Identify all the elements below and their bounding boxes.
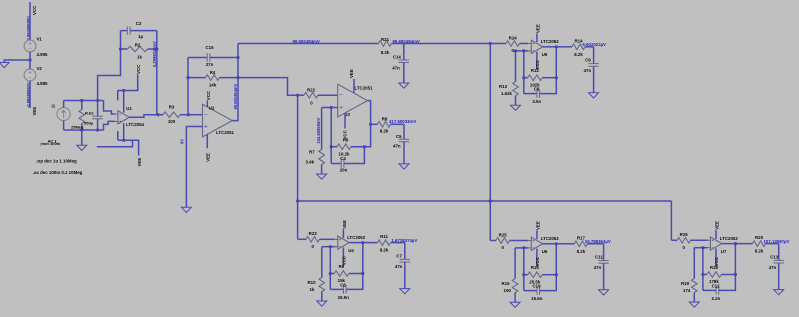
- svg-text:26.5n: 26.5n: [338, 295, 350, 300]
- ground below C9: [589, 93, 599, 98]
- wire U2 output up to feedback: [232, 44, 238, 121]
- resistor R25 0 (input): [490, 240, 496, 242]
- wire junction down to bus: [489, 44, 491, 241]
- wire U1 V+ pin to VCC: [123, 91, 125, 113]
- capacitor C6 26.5n (feedback): [330, 288, 343, 290]
- capacitor C15 27n: [188, 57, 207, 59]
- svg-text:R10: R10: [308, 280, 317, 285]
- svg-text:100: 100: [168, 119, 176, 124]
- svg-text:-4.88599997V: -4.88599997V: [26, 82, 31, 108]
- op-amp U1 LTC2054: [118, 111, 129, 124]
- wire I1 bottom lead: [63, 121, 65, 130]
- resistor R9 15k (feedback): [330, 273, 334, 275]
- op-amp U6 LTC2052: [531, 237, 542, 250]
- node feedback R4 right / to U3 path: [236, 76, 239, 79]
- resistor R18 178k (feedback): [703, 274, 707, 276]
- current source I1: [57, 107, 70, 120]
- wire R21 to junction: [392, 43, 491, 45]
- svg-text:C6: C6: [340, 282, 346, 287]
- svg-text:R25: R25: [499, 232, 508, 237]
- svg-text:1µ: 1µ: [138, 34, 143, 39]
- node U4 out: [361, 241, 364, 244]
- svg-text:3.5n: 3.5n: [532, 99, 541, 104]
- resistor R6 10.2k (feedback): [331, 146, 337, 148]
- capacitor across RE1 (950p): [97, 101, 99, 117]
- svg-text:R9: R9: [338, 264, 344, 269]
- resistor R22 0: [298, 94, 304, 96]
- svg-text:47n: 47n: [392, 66, 400, 71]
- resistor R24 0 (input): [490, 43, 506, 45]
- voltage source V2: [24, 69, 36, 81]
- svg-text:C14: C14: [393, 54, 402, 59]
- svg-text:AC 1: AC 1: [48, 139, 58, 144]
- svg-text:R3: R3: [169, 105, 175, 110]
- svg-text:8.2k: 8.2k: [755, 249, 764, 254]
- node feedback tap (U5): [522, 49, 525, 52]
- node top rail / RE1: [80, 99, 83, 102]
- node U3 out / R8: [369, 123, 372, 126]
- wire U5 output: [543, 46, 557, 48]
- capacitor C8 3.5n (feedback): [524, 93, 537, 95]
- svg-text:.ac dec 100m 0.1 10Meg: .ac dec 100m 0.1 10Meg: [33, 170, 83, 175]
- svg-text:14k: 14k: [209, 82, 217, 87]
- svg-text:VEE: VEE: [535, 221, 540, 230]
- svg-text:100: 100: [504, 288, 512, 293]
- node bottom rail / C input: [96, 128, 99, 131]
- resistor R.E1 25Meg: [81, 101, 83, 110]
- svg-text:4.885: 4.885: [37, 81, 49, 86]
- svg-text:C10: C10: [532, 284, 541, 289]
- svg-text:15.6n: 15.6n: [531, 296, 543, 301]
- wire U7 output: [722, 243, 736, 245]
- resistor R16 100 to ground: [514, 248, 516, 279]
- resistor R12 102k (feedback): [524, 77, 528, 79]
- svg-text:8.2k: 8.2k: [380, 248, 389, 253]
- wire U2 feedback left vertical: [187, 58, 189, 115]
- wire U2 V+ pin VCC: [206, 101, 208, 107]
- ground below C13: [774, 290, 784, 295]
- svg-text:VEE: VEE: [342, 220, 347, 229]
- svg-text:LTC2051: LTC2051: [355, 85, 374, 90]
- node A junction: [28, 58, 31, 61]
- wire U6 output: [543, 243, 557, 245]
- svg-text:C13: C13: [770, 254, 779, 259]
- svg-text:47n: 47n: [594, 265, 602, 270]
- svg-text:5.2999245mV: 5.2999245mV: [152, 41, 157, 67]
- voltage source V1: [24, 40, 36, 52]
- svg-text:U4: U4: [348, 248, 354, 253]
- op-amp U3 LTC2051: [338, 84, 368, 117]
- svg-text:47n: 47n: [395, 264, 403, 269]
- node R13 tap (U5): [514, 49, 517, 52]
- svg-text:R16: R16: [502, 281, 511, 286]
- svg-text:U6: U6: [542, 249, 548, 254]
- op-amp U5 LTC2052: [531, 40, 542, 53]
- svg-text:VEE: VEE: [715, 221, 720, 230]
- node bus / U4 stage tap: [296, 199, 299, 202]
- node feedback R row right (U7): [734, 273, 737, 276]
- node feedback R6 left: [330, 145, 333, 148]
- svg-text:C12: C12: [712, 283, 721, 288]
- resistor R3 100: [158, 114, 163, 116]
- node bottom rail / RE1: [80, 128, 83, 131]
- node U1 out / R2C2 / R3: [156, 113, 159, 116]
- wire U1 V- pin to VEE: [123, 123, 125, 140]
- svg-text:I1: I1: [52, 104, 56, 109]
- svg-text:0V: 0V: [180, 139, 185, 144]
- svg-text:R15: R15: [531, 265, 540, 270]
- ground below R7: [317, 174, 327, 179]
- wire feedback vertical (U6): [523, 248, 525, 291]
- wire node A to ground: [4, 60, 30, 63]
- wire main distribution bus: [298, 200, 672, 202]
- svg-text:104.65558mV: 104.65558mV: [316, 118, 321, 144]
- wire U5 V- pin VCC (bottom): [536, 52, 538, 70]
- svg-text:VEE: VEE: [206, 153, 211, 162]
- svg-text:107.13587µV: 107.13587µV: [764, 239, 790, 244]
- svg-text:C15: C15: [205, 45, 214, 50]
- wire U5 bottom input line: [516, 50, 529, 52]
- svg-text:C9: C9: [585, 58, 591, 63]
- svg-text:C8: C8: [534, 87, 540, 92]
- svg-text:25Meg: 25Meg: [71, 124, 84, 129]
- node feedback tap (U7): [701, 246, 704, 249]
- node U6 out: [555, 242, 558, 245]
- ground below C11: [599, 290, 609, 295]
- ground below R16: [510, 302, 520, 307]
- wire U4 bottom input line: [322, 246, 335, 248]
- wire U3 output: [368, 101, 371, 125]
- ground below R13: [511, 105, 521, 110]
- wire U2 V- pin VEE: [206, 134, 208, 148]
- node feedback R row left (U5): [522, 76, 525, 79]
- node feedback R row right (U5): [555, 76, 558, 79]
- capacitor C11 47n (output): [603, 244, 605, 261]
- wire U3 V- pin VCC (bottom): [344, 113, 346, 128]
- svg-text:1k: 1k: [310, 287, 315, 292]
- ground below R19: [689, 302, 699, 307]
- svg-text:C5: C5: [396, 134, 402, 139]
- ground below C5: [399, 164, 409, 169]
- wire feedback vertical (U4): [329, 247, 331, 290]
- wire U5 V+ pin VEE (top): [536, 33, 538, 42]
- svg-text:VEE: VEE: [137, 158, 142, 167]
- wire feedback vertical (U5): [523, 51, 525, 94]
- svg-text:3.4k: 3.4k: [306, 160, 315, 165]
- node feedback R row left (U7): [701, 273, 704, 276]
- node feedback R row left (U6): [522, 273, 525, 276]
- wire U7 V- pin VCC (bottom): [715, 248, 717, 266]
- svg-text:R19: R19: [681, 281, 690, 286]
- wire I1 top lead: [63, 101, 65, 108]
- capacitor C10 15.6n (feedback): [524, 290, 537, 292]
- wire bottom rail into U1 non-inverting input: [104, 121, 115, 130]
- wire R2C2 right side down to U1 output: [156, 31, 158, 115]
- svg-text:R6: R6: [343, 137, 349, 142]
- ground below C14: [399, 83, 409, 88]
- resistor R15 25.5k (feedback): [524, 274, 528, 276]
- wire U1 V- spur: [117, 131, 119, 140]
- resistor R11 8.2k (output): [363, 242, 378, 244]
- wire V2 to VEE: [29, 81, 31, 108]
- svg-text:U5: U5: [542, 52, 548, 57]
- svg-text:U7: U7: [721, 249, 727, 254]
- svg-text:98.682484mV: 98.682484mV: [233, 84, 238, 110]
- resistor R21 8.2k: [379, 41, 392, 47]
- node feedback R row right (U4): [361, 272, 364, 275]
- svg-text:8.2k: 8.2k: [577, 249, 586, 254]
- wire VCC to V1: [29, 2, 31, 40]
- op-amp U2 LTC2051: [203, 104, 233, 137]
- wire U4 V- pin VCC (bottom): [342, 247, 344, 265]
- svg-text:R20: R20: [755, 235, 764, 240]
- svg-text:20n: 20n: [340, 167, 348, 172]
- wire U2 output line to R21: [238, 43, 379, 45]
- svg-text:1.6728374µV: 1.6728374µV: [391, 238, 417, 243]
- node feedback right: [363, 145, 366, 148]
- wire U2 non-inverting input to ground: [186, 127, 202, 208]
- svg-text:R13: R13: [499, 84, 508, 89]
- svg-text:LTC2052: LTC2052: [720, 236, 739, 241]
- capacitor C9 47n (output): [593, 47, 595, 64]
- svg-text:C7: C7: [396, 253, 402, 258]
- op-amp U7 LTC2052: [710, 237, 721, 250]
- svg-text:R23: R23: [309, 231, 318, 236]
- wire input rail up to C2/R2 loop: [98, 31, 121, 101]
- svg-text:98.682484mV: 98.682484mV: [293, 39, 320, 44]
- svg-text:VCC: VCC: [206, 90, 211, 100]
- capacitor C12 2.2n (feedback): [703, 289, 716, 291]
- wire R3 to U2: [188, 114, 202, 116]
- resistor R7 3.4k to ground: [321, 108, 323, 150]
- ground below U2 +input: [181, 207, 191, 212]
- svg-text:R18: R18: [710, 265, 719, 270]
- ground below RE1: [81, 130, 83, 145]
- wire U1 V+ spur: [118, 90, 124, 92]
- svg-text:2.2n: 2.2n: [712, 296, 721, 301]
- wire U6 bottom input line: [515, 247, 528, 249]
- svg-text:R8: R8: [382, 116, 388, 121]
- node bus / U5-U6 tap: [489, 199, 492, 202]
- capacitor C4 20n (feedback): [331, 163, 341, 165]
- resistor R26 0 (input): [671, 239, 677, 241]
- svg-text:8.2k: 8.2k: [381, 50, 390, 55]
- wire feedback vertical (U7): [702, 248, 704, 291]
- svg-text:U2: U2: [209, 106, 215, 111]
- ground (left of V1/V2): [0, 63, 9, 68]
- capacitor C13 47n (output): [778, 244, 780, 261]
- svg-text:C2: C2: [136, 21, 142, 26]
- node feedback R row left (U4): [329, 272, 332, 275]
- capacitor C14 47n: [403, 44, 405, 61]
- node U7 out: [734, 242, 737, 245]
- wire bus vertical left: [297, 95, 299, 239]
- capacitor C2 1u: [121, 30, 128, 32]
- ground below C7: [400, 289, 410, 294]
- resistor R2 1k: [121, 48, 128, 50]
- svg-text:R24: R24: [509, 35, 518, 40]
- svg-text:V1: V1: [37, 36, 43, 41]
- svg-text:U1: U1: [126, 106, 132, 111]
- wire U3 feedback left vertical: [330, 108, 332, 164]
- wire bottom input rail: [64, 129, 104, 131]
- svg-text:LTC2052: LTC2052: [347, 235, 366, 240]
- capacitor C7 47n (output): [404, 243, 406, 260]
- wire R4 node to U3 input: [238, 78, 298, 96]
- node U3 input / bus tap: [296, 94, 299, 97]
- wire U4 V+ pin VEE (top): [342, 229, 344, 238]
- svg-text:R11: R11: [380, 234, 388, 239]
- resistor R23 0 (input): [298, 238, 306, 240]
- wire U3 V+ pin VEE (top): [353, 79, 355, 93]
- svg-text:LTC2052: LTC2052: [541, 39, 560, 44]
- svg-text:LTC2052: LTC2052: [541, 236, 560, 241]
- svg-text:R12: R12: [531, 68, 540, 73]
- node feedback tap (U4): [329, 245, 332, 248]
- wire U4 output: [349, 242, 363, 244]
- svg-text:R22: R22: [307, 87, 316, 92]
- svg-text:VEE: VEE: [535, 24, 540, 33]
- wire U6 V+ pin VEE (top): [536, 230, 538, 239]
- svg-text:1k: 1k: [137, 55, 142, 60]
- wire V1 to node A: [29, 52, 31, 69]
- wire U7 bottom input line: [694, 247, 707, 249]
- svg-text:VCC: VCC: [32, 5, 37, 15]
- svg-text:LTC2054: LTC2054: [126, 122, 145, 127]
- svg-text:R26: R26: [680, 232, 689, 237]
- svg-text:47n: 47n: [769, 265, 777, 270]
- resistor R14 8.2k (output): [556, 46, 572, 48]
- resistor R10 1k to ground: [321, 247, 323, 278]
- resistor R13 1.62k to ground: [515, 51, 517, 82]
- node R2/C2 left: [119, 47, 122, 50]
- svg-text:8.2k: 8.2k: [574, 52, 583, 57]
- wire top rail into U1 inverting input: [104, 101, 115, 115]
- node feedback R row right (U6): [555, 273, 558, 276]
- wire U3 non-inv input / feedback node: [322, 107, 338, 109]
- resistor R8 8.2k: [371, 123, 378, 125]
- svg-text:VEE: VEE: [349, 69, 354, 78]
- svg-text:VCC: VCC: [136, 64, 141, 74]
- svg-text:417.50033mV: 417.50033mV: [389, 119, 416, 124]
- wire U6 V- pin VCC (bottom): [536, 249, 538, 267]
- svg-text:R4: R4: [210, 70, 216, 75]
- svg-text:;op dec 1u 1 10Meg: ;op dec 1u 1 10Meg: [36, 159, 77, 164]
- node feedback C15 right: [236, 56, 239, 59]
- resistor R20 8.2k (output): [735, 243, 752, 245]
- resistor R17 8.2k (output): [556, 243, 574, 245]
- resistor R19 174 to ground: [693, 248, 695, 279]
- wire bus down to U7 stage: [670, 201, 672, 240]
- svg-text:R7: R7: [309, 150, 315, 155]
- node feedback tap (U6): [522, 246, 525, 249]
- wire stray VEE-side segment: [97, 140, 133, 147]
- wire U1 output: [129, 115, 158, 118]
- svg-text:27n: 27n: [206, 62, 214, 67]
- svg-text:1.62k: 1.62k: [501, 91, 513, 96]
- capacitor C5 47n: [403, 124, 405, 139]
- node junction to U5 stage and bus: [489, 42, 492, 45]
- svg-text:47n: 47n: [393, 144, 401, 149]
- svg-text:47n: 47n: [584, 68, 592, 73]
- svg-text:C11: C11: [595, 255, 603, 260]
- svg-text:C4: C4: [340, 156, 346, 161]
- svg-text:V2: V2: [37, 66, 43, 71]
- wire U7 V+ pin VEE (top): [715, 230, 717, 239]
- svg-text:R.E1: R.E1: [85, 110, 95, 115]
- svg-text:4.995: 4.995: [37, 52, 49, 57]
- op-amp U4 LTC2052: [338, 236, 349, 249]
- svg-text:8.2k: 8.2k: [380, 129, 389, 134]
- svg-text:R2: R2: [135, 42, 141, 47]
- svg-text:950p: 950p: [84, 121, 94, 126]
- svg-text:VEE: VEE: [32, 107, 37, 116]
- svg-text:26.788364µV: 26.788364µV: [585, 239, 611, 244]
- wire top input rail: [64, 100, 104, 102]
- node R2/C2 right: [155, 47, 158, 50]
- node top rail / C input: [96, 99, 99, 102]
- svg-text:6.602022µV: 6.602022µV: [583, 42, 607, 47]
- svg-text:98.682484mV: 98.682484mV: [393, 39, 420, 44]
- svg-text:174: 174: [683, 288, 691, 293]
- node U5 out: [555, 45, 558, 48]
- ground below R10: [317, 301, 327, 306]
- svg-text:R21: R21: [381, 37, 390, 42]
- resistor R4 14k: [188, 77, 206, 79]
- node R3 / feedback / U2 inv input: [187, 113, 190, 116]
- svg-text:LTC2051: LTC2051: [216, 130, 235, 135]
